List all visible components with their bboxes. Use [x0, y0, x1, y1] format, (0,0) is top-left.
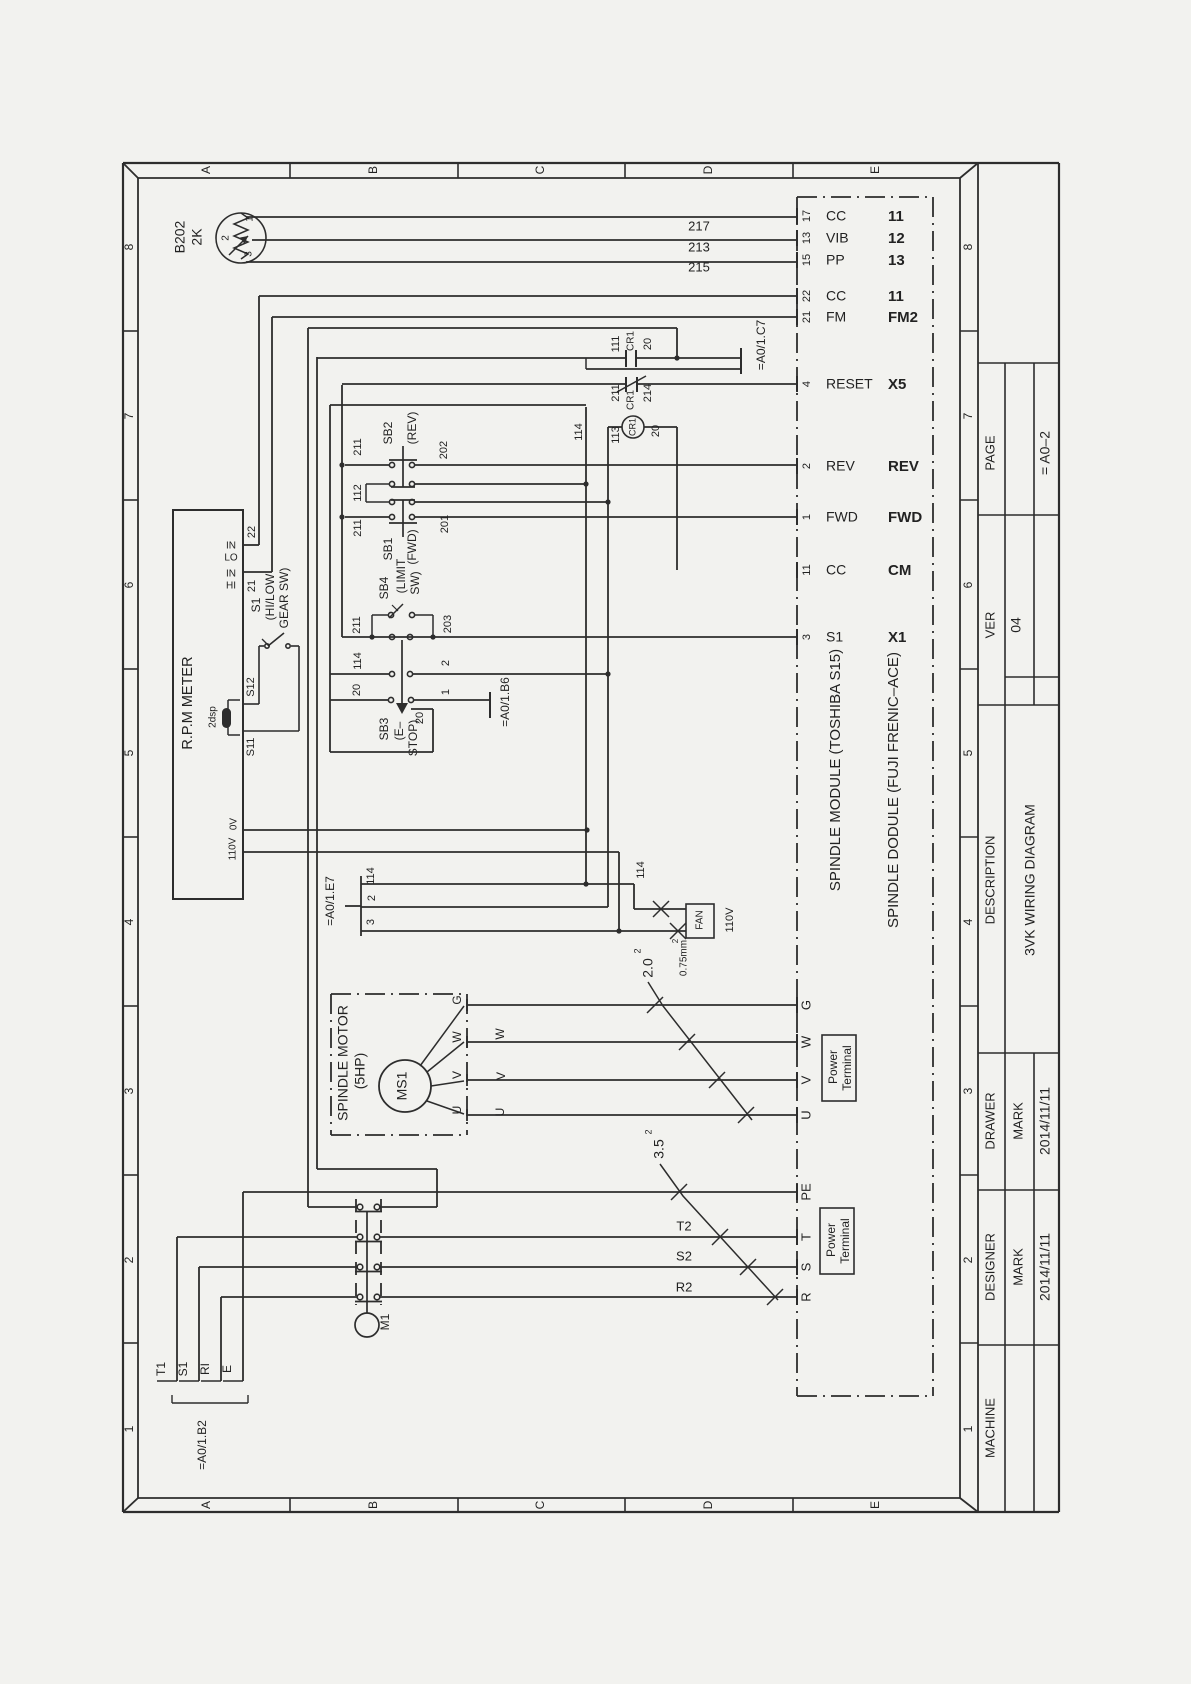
svg-text:2: 2	[122, 1256, 136, 1263]
svg-text:= A0–2: = A0–2	[1037, 431, 1053, 475]
svg-text:=A0/1.B2: =A0/1.B2	[195, 1420, 209, 1470]
svg-text:CR1: CR1	[626, 390, 637, 410]
svg-text:SPINDLE DODULE (FUJI FRENIC–AC: SPINDLE DODULE (FUJI FRENIC–ACE)	[885, 652, 902, 928]
svg-text:2dsp: 2dsp	[208, 706, 219, 728]
svg-text:203: 203	[442, 615, 454, 633]
svg-text:PE: PE	[798, 1183, 813, 1201]
svg-text:U: U	[798, 1110, 813, 1119]
svg-text:MARK: MARK	[1010, 1102, 1025, 1140]
svg-text:(E–: (E–	[392, 721, 406, 740]
svg-text:211: 211	[610, 384, 622, 402]
svg-text:STOP): STOP)	[406, 720, 420, 756]
svg-text:CR1: CR1	[626, 331, 637, 351]
svg-text:M1: M1	[378, 1313, 392, 1330]
svg-text:2: 2	[221, 235, 232, 241]
svg-text:FAN: FAN	[695, 910, 706, 929]
svg-text:15: 15	[801, 254, 813, 266]
svg-text:SB4: SB4	[377, 576, 391, 599]
svg-text:112: 112	[352, 484, 364, 502]
svg-text:3: 3	[961, 1087, 975, 1094]
svg-text:201: 201	[439, 515, 451, 533]
svg-text:PAGE: PAGE	[982, 435, 997, 470]
svg-text:FWD: FWD	[888, 509, 922, 526]
svg-text:B: B	[366, 166, 380, 174]
svg-text:CR1: CR1	[627, 418, 637, 436]
svg-text:FM: FM	[826, 309, 846, 325]
svg-text:=A0/1.E7: =A0/1.E7	[323, 876, 337, 926]
svg-text:S1: S1	[249, 597, 263, 612]
svg-text:A: A	[199, 166, 213, 174]
svg-text:MACHINE: MACHINE	[982, 1398, 997, 1458]
svg-text:(HI/LOW: (HI/LOW	[263, 573, 277, 620]
svg-text:111: 111	[610, 336, 622, 353]
svg-text:T: T	[798, 1233, 813, 1241]
svg-text:2.0: 2.0	[640, 958, 656, 978]
svg-text:5: 5	[961, 749, 975, 756]
svg-text:D: D	[701, 165, 715, 174]
svg-text:W: W	[450, 1031, 464, 1043]
svg-text:CC: CC	[826, 208, 846, 224]
svg-text:C: C	[533, 1500, 547, 1509]
svg-text:R.P.M METER: R.P.M METER	[180, 656, 196, 749]
svg-text:SB3: SB3	[377, 717, 391, 740]
svg-text:20: 20	[642, 338, 654, 350]
svg-text:FM2: FM2	[888, 309, 918, 326]
svg-text:11: 11	[888, 288, 904, 305]
svg-text:Power: Power	[826, 1050, 840, 1084]
svg-text:2014/11/11: 2014/11/11	[1037, 1233, 1053, 1301]
svg-text:2: 2	[801, 463, 813, 469]
svg-text:B: B	[366, 1501, 380, 1509]
svg-text:X5: X5	[888, 376, 906, 393]
svg-text:R: R	[798, 1292, 813, 1301]
svg-text:7: 7	[961, 412, 975, 419]
svg-text:2014/11/11: 2014/11/11	[1037, 1087, 1053, 1155]
svg-text:D: D	[701, 1500, 715, 1509]
svg-text:R2: R2	[676, 1279, 693, 1294]
svg-text:W: W	[493, 1028, 507, 1040]
svg-text:1: 1	[122, 1425, 136, 1432]
svg-text:217: 217	[688, 218, 710, 233]
svg-text:8: 8	[122, 243, 136, 250]
svg-text:2: 2	[671, 938, 680, 943]
svg-text:RI: RI	[198, 1363, 212, 1375]
svg-text:W: W	[798, 1035, 813, 1048]
svg-text:8: 8	[961, 243, 975, 250]
svg-text:U: U	[450, 1106, 464, 1115]
svg-text:MARK: MARK	[1010, 1248, 1025, 1286]
svg-text:G: G	[450, 995, 464, 1004]
svg-text:S11: S11	[245, 738, 257, 757]
svg-text:2: 2	[366, 895, 378, 901]
svg-text:(LIMIT: (LIMIT	[394, 558, 408, 593]
svg-text:C: C	[533, 165, 547, 174]
svg-text:Terminal: Terminal	[838, 1218, 852, 1263]
svg-text:REV: REV	[888, 458, 919, 475]
svg-text:214: 214	[642, 384, 654, 402]
svg-text:13: 13	[888, 252, 905, 269]
svg-text:S1: S1	[176, 1361, 190, 1376]
svg-text:FWD: FWD	[826, 509, 858, 525]
svg-text:CC: CC	[826, 562, 846, 578]
svg-text:G: G	[798, 1000, 813, 1010]
svg-text:7: 7	[122, 412, 136, 419]
svg-text:IN: IN	[226, 569, 236, 580]
svg-text:0.75mm: 0.75mm	[679, 940, 690, 976]
svg-text:DESCRIPTION: DESCRIPTION	[982, 836, 997, 925]
svg-text:13: 13	[801, 232, 813, 244]
svg-text:2: 2	[440, 660, 452, 666]
svg-text:Power: Power	[824, 1223, 838, 1257]
svg-text:GEAR SW): GEAR SW)	[277, 568, 291, 629]
svg-text:1: 1	[961, 1425, 975, 1432]
svg-text:213: 213	[688, 239, 710, 254]
svg-text:(5HP): (5HP)	[352, 1053, 368, 1090]
svg-text:V: V	[798, 1075, 813, 1084]
svg-text:VER: VER	[982, 612, 997, 639]
svg-text:V: V	[494, 1072, 508, 1080]
svg-text:211: 211	[352, 519, 364, 537]
svg-text:110V: 110V	[228, 837, 239, 860]
svg-text:CC: CC	[826, 288, 846, 304]
svg-text:1: 1	[440, 689, 452, 695]
svg-text:SPINDLE MODULE (TOSHIBA S15): SPINDLE MODULE (TOSHIBA S15)	[827, 649, 844, 891]
svg-text:211: 211	[352, 438, 364, 456]
svg-text:S12: S12	[245, 677, 257, 697]
svg-text:114: 114	[635, 861, 647, 879]
svg-text:17: 17	[801, 210, 813, 222]
svg-text:CM: CM	[888, 562, 911, 579]
svg-text:SPINDLE MOTOR: SPINDLE MOTOR	[335, 1005, 351, 1121]
svg-text:6: 6	[122, 581, 136, 588]
svg-text:S2: S2	[676, 1248, 692, 1263]
svg-text:DESIGNER: DESIGNER	[982, 1233, 997, 1301]
svg-text:SB1: SB1	[381, 537, 395, 560]
svg-text:3: 3	[365, 919, 377, 925]
svg-text:04: 04	[1008, 617, 1024, 633]
svg-text:IN: IN	[226, 541, 236, 552]
svg-text:SB2: SB2	[381, 421, 395, 444]
svg-text:T2: T2	[676, 1218, 691, 1233]
svg-text:12: 12	[888, 230, 905, 247]
svg-text:5: 5	[122, 749, 136, 756]
svg-text:22: 22	[246, 526, 258, 538]
svg-text:X1: X1	[888, 629, 906, 646]
svg-text:RESET: RESET	[826, 376, 873, 392]
svg-text:U: U	[493, 1108, 507, 1117]
svg-text:E: E	[220, 1365, 234, 1373]
svg-text:113: 113	[610, 426, 622, 444]
svg-text:211: 211	[351, 616, 363, 634]
svg-text:110V: 110V	[724, 907, 736, 933]
svg-text:V: V	[450, 1071, 464, 1079]
svg-text:114: 114	[365, 867, 377, 885]
svg-text:11: 11	[888, 208, 904, 225]
svg-text:PP: PP	[826, 252, 845, 268]
svg-text:0V: 0V	[229, 818, 240, 831]
svg-text:22: 22	[801, 290, 813, 302]
svg-text:4: 4	[801, 381, 813, 387]
svg-text:=A0/1.C7: =A0/1.C7	[754, 319, 768, 370]
svg-text:S: S	[798, 1262, 813, 1271]
svg-text:3: 3	[244, 251, 255, 257]
svg-text:3: 3	[801, 634, 813, 640]
svg-text:S1: S1	[826, 629, 843, 645]
svg-text:=A0/1.B6: =A0/1.B6	[498, 677, 512, 727]
svg-text:HI: HI	[226, 581, 236, 592]
svg-text:20: 20	[650, 425, 662, 437]
svg-text:VIB: VIB	[826, 230, 849, 246]
svg-text:1: 1	[801, 514, 813, 520]
svg-text:114: 114	[573, 423, 585, 441]
svg-text:20: 20	[351, 684, 363, 696]
svg-text:21: 21	[246, 580, 258, 592]
svg-text:6: 6	[961, 581, 975, 588]
svg-text:E: E	[868, 1501, 882, 1509]
svg-text:215: 215	[688, 259, 710, 274]
svg-text:2: 2	[643, 1129, 653, 1134]
svg-text:114: 114	[352, 652, 364, 670]
svg-text:3VK WIRING DIAGRAM: 3VK WIRING DIAGRAM	[1022, 804, 1038, 956]
svg-text:2: 2	[961, 1256, 975, 1263]
svg-text:3.5: 3.5	[651, 1139, 667, 1159]
svg-text:3: 3	[122, 1087, 136, 1094]
svg-text:202: 202	[438, 441, 450, 459]
svg-text:20: 20	[414, 712, 426, 724]
svg-text:Terminal: Terminal	[840, 1045, 854, 1090]
svg-text:4: 4	[961, 918, 975, 925]
svg-text:2: 2	[632, 948, 642, 953]
svg-text:4: 4	[122, 918, 136, 925]
svg-text:REV: REV	[826, 458, 855, 474]
svg-text:(REV): (REV)	[405, 412, 419, 445]
svg-text:A: A	[199, 1501, 213, 1509]
svg-text:2K: 2K	[189, 228, 205, 246]
svg-text:T1: T1	[154, 1362, 168, 1376]
svg-text:DRAWER: DRAWER	[982, 1092, 997, 1149]
svg-text:MS1: MS1	[394, 1071, 410, 1100]
svg-text:B202: B202	[172, 220, 188, 253]
svg-text:SW): SW)	[408, 571, 422, 594]
svg-text:11: 11	[801, 564, 813, 575]
svg-text:LO: LO	[224, 553, 238, 564]
svg-text:E: E	[868, 166, 882, 174]
svg-text:21: 21	[801, 311, 813, 323]
